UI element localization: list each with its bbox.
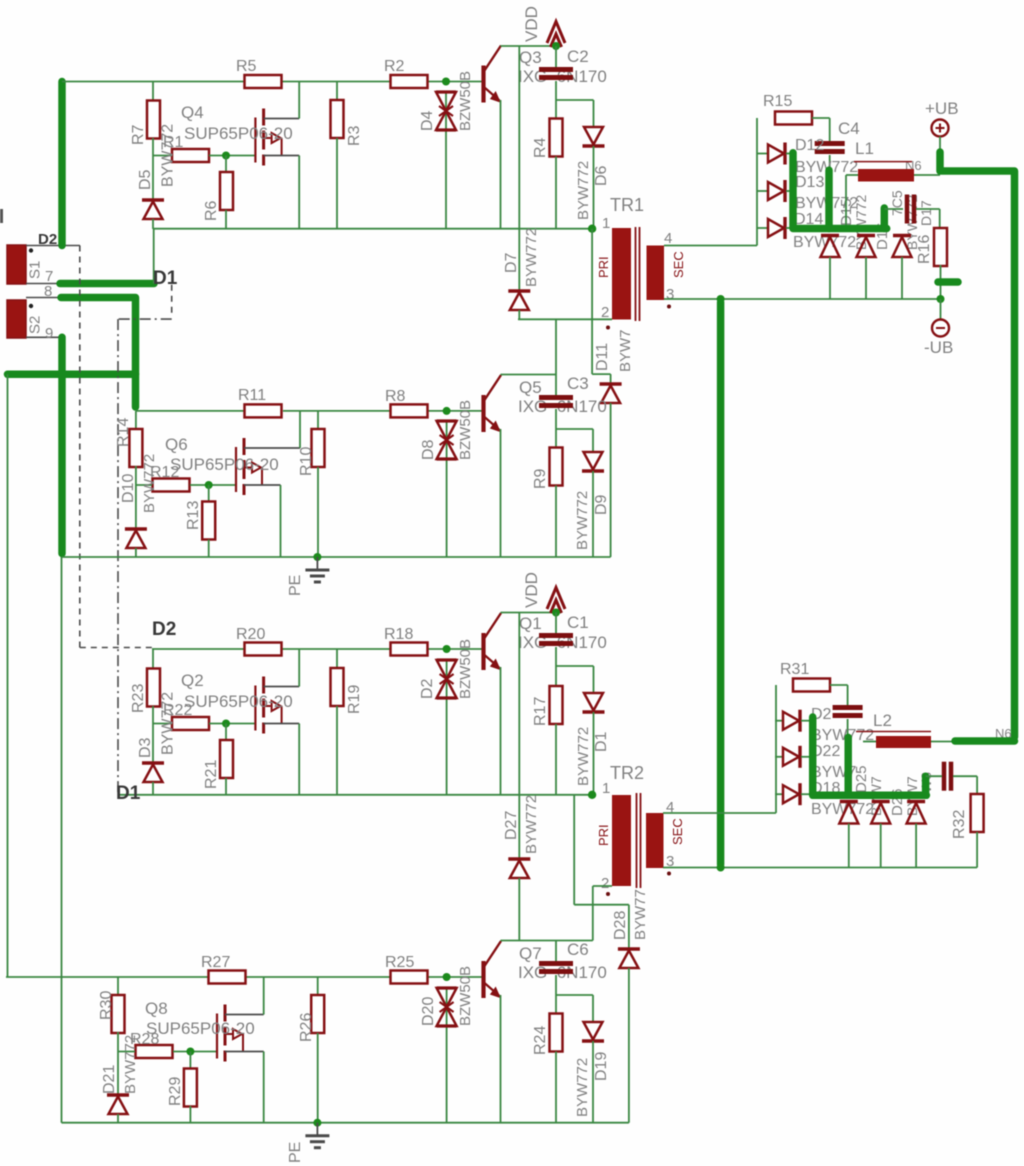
svg-text:Q5: Q5 bbox=[519, 378, 542, 397]
transistor Q5 IXGN170 bbox=[484, 375, 502, 432]
supply VDD block3 bbox=[547, 588, 565, 615]
junction D4 node bbox=[442, 78, 450, 86]
wire C7 bottom bbox=[847, 719, 849, 798]
svg-text:R30: R30 bbox=[98, 991, 115, 1020]
diode D16 up bbox=[857, 234, 875, 237]
svg-text:R25: R25 bbox=[385, 954, 414, 971]
svg-text:BYW772: BYW772 bbox=[523, 228, 540, 287]
wire D14 anode bbox=[757, 227, 768, 229]
wire D10 bottom bbox=[135, 548, 137, 557]
svg-text:D21: D21 bbox=[101, 1065, 118, 1094]
svg-text:D27: D27 bbox=[503, 811, 520, 840]
wire net D2 left vertical bbox=[7, 374, 9, 977]
svg-text:Q4: Q4 bbox=[181, 103, 204, 122]
current transformer S2 bbox=[7, 298, 61, 339]
wire R13 top bbox=[208, 485, 210, 501]
svg-text:BYW7: BYW7 bbox=[617, 329, 634, 372]
svg-text:R32: R32 bbox=[951, 810, 968, 839]
wire R16 bottom bbox=[940, 265, 942, 299]
wire +UB stem bbox=[939, 137, 941, 153]
wire R30 to D21 bbox=[117, 1032, 119, 1095]
terminal +UB bbox=[932, 120, 949, 137]
TVS diode D20 BZW50B bbox=[437, 988, 457, 1026]
wire R22 to junction bbox=[209, 723, 255, 725]
svg-text:PRI: PRI bbox=[596, 256, 611, 278]
capacitor C1 bbox=[539, 636, 573, 644]
svg-text:Q7: Q7 bbox=[519, 944, 542, 963]
junction PE block2 bbox=[313, 553, 321, 561]
wire C1 top bbox=[555, 613, 557, 634]
thick wire net 8 bbox=[61, 298, 136, 408]
resistor R13 bbox=[202, 502, 215, 540]
wire R1 left lead bbox=[153, 155, 172, 157]
wire D27 down o2 bbox=[915, 824, 917, 868]
wire R10 top bbox=[317, 411, 319, 429]
diode D15 up bbox=[821, 234, 839, 237]
junction PE block4 bbox=[313, 1119, 321, 1127]
svg-text:SUP65P06-20: SUP65P06-20 bbox=[146, 1019, 255, 1038]
wire C8 left bbox=[926, 775, 942, 777]
resistor R4 bbox=[550, 119, 563, 157]
svg-text:TR2: TR2 bbox=[610, 763, 644, 783]
svg-text:L2: L2 bbox=[873, 711, 892, 730]
thick stub R16 bbox=[938, 278, 958, 286]
wire rectifier left column bbox=[756, 118, 758, 246]
wire branch to D19 bbox=[556, 994, 593, 996]
node bottom rail block2 PE bbox=[62, 556, 611, 558]
svg-text:D9: D9 bbox=[593, 494, 610, 515]
svg-text:SEC: SEC bbox=[670, 818, 685, 845]
polarity dot TR2 pri bbox=[606, 892, 610, 896]
junction D8 node bbox=[443, 407, 451, 415]
wire C3 to R9 bbox=[555, 409, 557, 447]
svg-text:SUP65P06-20: SUP65P06-20 bbox=[184, 124, 293, 143]
svg-text:R20: R20 bbox=[236, 626, 265, 643]
svg-text:VDD: VDD bbox=[522, 6, 541, 42]
svg-text:BYW772: BYW772 bbox=[575, 727, 592, 786]
node bottom rail block1 bbox=[153, 228, 592, 230]
wire D9 bottom bbox=[592, 471, 594, 557]
wire R28 to gate bbox=[173, 1051, 217, 1053]
wire D1 bottom bbox=[593, 712, 595, 795]
diode D6 BYW772 bbox=[583, 127, 605, 146]
wire C1 to R17 bbox=[555, 647, 557, 686]
wire D25 down bbox=[848, 824, 850, 868]
resistor R23 bbox=[147, 669, 160, 707]
node top rail block4 bbox=[6, 976, 209, 978]
wire R19 bottom bbox=[336, 706, 338, 795]
diode D13 BYW772 bbox=[768, 180, 785, 202]
resistor R29 bbox=[184, 1069, 197, 1107]
wire pin1 to D28 vertical bbox=[573, 795, 575, 905]
wire R4 bottom bbox=[555, 157, 557, 229]
svg-text:BYW772: BYW772 bbox=[160, 124, 177, 187]
svg-text:C4: C4 bbox=[838, 119, 860, 138]
resistor R32 bbox=[971, 794, 984, 832]
diode D27 up o2 bbox=[907, 800, 925, 803]
svg-text:C6: C6 bbox=[567, 940, 589, 959]
svg-text:R8: R8 bbox=[385, 388, 406, 405]
svg-text:R7: R7 bbox=[130, 124, 147, 145]
wire R14 top bbox=[135, 411, 137, 430]
wire R22 left lead bbox=[153, 723, 172, 725]
resistor R22 bbox=[172, 717, 209, 730]
svg-text:SUP65P06-20: SUP65P06-20 bbox=[184, 692, 293, 711]
svg-text:+UB: +UB bbox=[925, 99, 959, 118]
wire D19 bottom bbox=[592, 1041, 594, 1123]
junction TR2 pin1 bbox=[588, 791, 596, 799]
wire C5 to R16 bbox=[939, 209, 941, 229]
svg-text:R6: R6 bbox=[203, 200, 220, 221]
svg-text:R13: R13 bbox=[185, 501, 202, 530]
svg-text:S2: S2 bbox=[27, 316, 44, 334]
wire D20 vertical bbox=[446, 988, 448, 1123]
svg-text:D12: D12 bbox=[795, 137, 824, 154]
diode D19 BYW772 bbox=[582, 1022, 604, 1041]
resistor R15 bbox=[775, 112, 812, 125]
svg-text:D1: D1 bbox=[593, 731, 610, 752]
svg-text:2: 2 bbox=[601, 875, 609, 892]
resistor R30 bbox=[112, 995, 125, 1033]
wire Q5 emitter bbox=[500, 429, 502, 557]
wire D5 to rail bbox=[152, 219, 154, 229]
wire C2 to R4 bbox=[555, 81, 557, 118]
wire D28 bottom bbox=[628, 968, 630, 1123]
wire L2 right lead bbox=[931, 741, 955, 743]
thick bus stub right o2 bbox=[922, 776, 930, 795]
wire R29 bottom bbox=[189, 1106, 191, 1123]
svg-text:BZW50B: BZW50B bbox=[457, 639, 474, 699]
junction minus TR1 bbox=[717, 295, 725, 303]
svg-text:TR1: TR1 bbox=[610, 195, 644, 215]
thick bus stub mid o2 bbox=[844, 737, 852, 795]
svg-text:C3: C3 bbox=[567, 374, 589, 393]
svg-text:D10: D10 bbox=[120, 474, 137, 503]
wire net9 vertical to PE rail bbox=[61, 557, 63, 1123]
thick wire +UB bbox=[940, 152, 1015, 737]
svg-text:R9: R9 bbox=[532, 468, 549, 489]
svg-text:BYW772: BYW772 bbox=[853, 195, 869, 250]
capacitor C5 bbox=[907, 195, 914, 224]
resistor R8 bbox=[391, 404, 428, 417]
svg-text:D2: D2 bbox=[152, 619, 176, 640]
resistor R21 bbox=[220, 740, 233, 778]
wire Q7 emitter bbox=[500, 995, 502, 1123]
transformer TR1 secondary bbox=[647, 246, 665, 301]
wire D7 to pin2 bbox=[518, 310, 520, 319]
svg-text:BYW77: BYW77 bbox=[632, 889, 649, 940]
wire D27 vertical bbox=[518, 613, 520, 859]
diode D26 up bbox=[872, 800, 890, 803]
node bottom rail block3 bbox=[118, 794, 592, 796]
wire L1 right lead bbox=[914, 174, 940, 176]
svg-text:BYW772: BYW772 bbox=[574, 1058, 591, 1117]
wire R14 to D10 bbox=[135, 466, 137, 529]
transformer TR2 core bbox=[636, 793, 638, 888]
wire C8 right bbox=[953, 775, 977, 777]
wire R6 top bbox=[225, 156, 227, 173]
supply VDD block1 bbox=[547, 22, 565, 49]
transformer TR1 core bbox=[635, 227, 637, 321]
wire D6 top bbox=[593, 100, 595, 127]
wire Q3 collector bbox=[501, 45, 557, 47]
resistor R7 bbox=[147, 101, 160, 139]
node TR2 pin2 wire bbox=[593, 885, 612, 887]
wire D22 anode bbox=[775, 720, 783, 722]
svg-text:D19: D19 bbox=[593, 1052, 610, 1081]
capacitor C4 bbox=[815, 144, 845, 152]
wire R19 top bbox=[336, 649, 338, 668]
wire R12 left bbox=[136, 484, 152, 486]
wire D11 jog bbox=[592, 373, 611, 375]
wire D17 down bbox=[901, 257, 903, 299]
transistor Q2 SUP65P06-20 bbox=[255, 649, 299, 795]
transistor Q3 IXGN170 bbox=[484, 46, 502, 103]
svg-text:D4: D4 bbox=[419, 110, 436, 131]
wire branch to D1 bbox=[556, 665, 594, 667]
svg-text:8: 8 bbox=[44, 283, 52, 300]
transistor Q4 SUP65P06-20 bbox=[255, 82, 299, 229]
svg-text:R15: R15 bbox=[763, 93, 792, 110]
ground PE block4 bbox=[305, 1123, 329, 1148]
diode D17 up bbox=[893, 234, 911, 237]
svg-text:D20: D20 bbox=[420, 997, 437, 1026]
resistor R19 bbox=[331, 668, 344, 706]
diode D1 BYW772 bbox=[583, 693, 605, 712]
node top rail block3 bbox=[152, 648, 245, 650]
thick bus stub right bbox=[881, 208, 889, 229]
wire C3 top bbox=[555, 319, 557, 395]
svg-text:Q3: Q3 bbox=[519, 48, 542, 67]
wire L1 left down bbox=[845, 175, 847, 225]
resistor R3 bbox=[331, 100, 344, 138]
diode D23 BYW772 bbox=[783, 746, 800, 768]
junction VDD C1 bbox=[552, 609, 560, 617]
wire D2tvs vertical bbox=[446, 660, 448, 795]
wire D23 cathode bbox=[801, 756, 813, 758]
svg-text:D2: D2 bbox=[38, 231, 57, 248]
svg-text:BZW50B: BZW50B bbox=[457, 400, 474, 460]
wire C5 right bbox=[916, 208, 940, 210]
wire D3 to rail bbox=[152, 782, 154, 795]
wire D12 anode bbox=[757, 153, 768, 155]
svg-text:R29: R29 bbox=[167, 1077, 184, 1106]
wire D11 bottom bbox=[610, 403, 612, 557]
inductor L2 bbox=[876, 736, 931, 748]
wire R23 branch top bbox=[152, 649, 154, 669]
wire D24 anode bbox=[775, 793, 783, 795]
wire R6 bottom bbox=[225, 210, 227, 229]
edge tick bbox=[0, 209, 3, 223]
diode D24 BYW772 bbox=[783, 783, 800, 805]
svg-text:R19: R19 bbox=[346, 685, 363, 714]
resistor R2 bbox=[391, 75, 428, 88]
resistor R11 bbox=[245, 404, 282, 417]
svg-text:SEC: SEC bbox=[671, 251, 686, 278]
svg-text:3: 3 bbox=[666, 286, 674, 303]
wire R26 bottom bbox=[317, 1033, 319, 1123]
resistor R26 bbox=[311, 995, 324, 1033]
wire R26 top bbox=[317, 977, 319, 995]
transistor Q8 SUP65P06-20 bbox=[217, 977, 264, 1123]
svg-text:Q6: Q6 bbox=[165, 435, 188, 454]
wire D24 cathode bbox=[801, 793, 813, 795]
wire R1 to junction bbox=[209, 155, 255, 157]
resistor R12 bbox=[153, 479, 190, 492]
resistor R31 bbox=[793, 679, 830, 692]
svg-text:BYW772: BYW772 bbox=[160, 692, 177, 755]
transformer TR2 secondary bbox=[646, 813, 664, 868]
wire C8 to R32 bbox=[976, 776, 978, 794]
TVS diode D8 BZW50B bbox=[437, 421, 457, 459]
transistor Q6 SUP65P06-20 bbox=[236, 411, 300, 557]
wire pin1 to D11 vertical bbox=[591, 229, 593, 374]
svg-text:PE: PE bbox=[287, 1142, 304, 1163]
svg-text:D17: D17 bbox=[918, 200, 934, 226]
wire D28 jog bbox=[574, 904, 629, 906]
wire R15 right to C4 bbox=[812, 117, 830, 119]
wire R3 top bbox=[336, 82, 338, 101]
resistor R9 bbox=[550, 448, 563, 486]
junction TR1 pin1 bbox=[588, 225, 596, 233]
svg-text:D13: D13 bbox=[795, 174, 824, 191]
wire C5 left bbox=[885, 208, 904, 210]
resistor R20 bbox=[245, 643, 282, 656]
resistor R28 bbox=[136, 1045, 173, 1058]
wire TR1 pin4 to rectifier bbox=[664, 245, 757, 247]
svg-text:D8: D8 bbox=[420, 439, 437, 460]
wire R3 bottom bbox=[336, 138, 338, 229]
resistor R16 bbox=[934, 228, 947, 266]
wire R23 to R22 bbox=[152, 706, 154, 763]
diode D14 BYW772 bbox=[768, 217, 785, 239]
svg-text:BYW772: BYW772 bbox=[574, 491, 591, 550]
wire D26 down bbox=[880, 824, 882, 868]
wire R9 bottom bbox=[555, 486, 557, 558]
wire R31 right to C7 bbox=[830, 684, 848, 686]
junction gate Q8 bbox=[186, 1048, 194, 1056]
wire R32 bottom bbox=[976, 832, 978, 868]
svg-text:PE: PE bbox=[287, 575, 304, 596]
svg-text:4: 4 bbox=[664, 230, 672, 247]
thick bus link outputs bbox=[717, 302, 725, 865]
wire TR2 pin4 to rectifier bbox=[663, 812, 776, 814]
dashed link to D2 rail bbox=[80, 647, 152, 649]
resistor R24 bbox=[550, 1014, 563, 1052]
ground PE block2 bbox=[305, 557, 329, 582]
wire R29 top bbox=[189, 1052, 191, 1070]
svg-text:R14: R14 bbox=[115, 418, 132, 447]
wire D9 top bbox=[592, 429, 594, 452]
svg-text:L1: L1 bbox=[855, 139, 874, 158]
thick wire net 9 bbox=[58, 337, 66, 553]
diode D3 BYW772 bbox=[142, 763, 164, 782]
wire D4 vertical bbox=[445, 92, 447, 229]
wire D8 vertical bbox=[446, 421, 448, 557]
wire R7 to R1 bbox=[152, 138, 154, 200]
wire -UB stem bbox=[940, 299, 942, 320]
node top rail block1 bbox=[62, 81, 245, 83]
wire R30 top bbox=[117, 977, 119, 996]
wire D19 top bbox=[592, 995, 594, 1022]
capacitor C3 bbox=[539, 398, 573, 406]
wire pin2 to Q7 collector bbox=[592, 886, 594, 941]
node bottom rail block4 PE bbox=[62, 1122, 629, 1124]
svg-text:D28: D28 bbox=[612, 911, 629, 940]
dash-dot link D1 long vertical bbox=[117, 319, 119, 795]
wire R21 bottom bbox=[225, 778, 227, 795]
resistor R17 bbox=[550, 686, 563, 724]
wire C2 top bbox=[555, 46, 557, 67]
node top rail block2 bbox=[136, 410, 244, 412]
thick wire net 7 horizontal bbox=[60, 280, 154, 288]
diode D27 BYW772 bbox=[508, 859, 530, 878]
thick wire net 8 branch bbox=[8, 371, 136, 379]
transformer TR2 primary bbox=[612, 795, 631, 886]
diode D10 BYW772 bbox=[125, 529, 147, 548]
svg-text:R31: R31 bbox=[780, 661, 809, 678]
svg-text:7C5: 7C5 bbox=[889, 190, 905, 216]
svg-text:D5: D5 bbox=[137, 169, 154, 190]
svg-text:1: 1 bbox=[602, 215, 610, 232]
wire Q1 collector bbox=[501, 612, 557, 614]
polarity dot TR1 pri bbox=[606, 326, 610, 330]
resistor R27 bbox=[209, 971, 246, 984]
wire D6 bottom bbox=[593, 146, 595, 229]
wire R10 bottom bbox=[317, 467, 319, 557]
svg-text:PRI: PRI bbox=[596, 824, 611, 846]
svg-text:D6: D6 bbox=[593, 165, 610, 186]
wire branch to D9 bbox=[556, 428, 593, 430]
svg-text:R11: R11 bbox=[238, 387, 266, 404]
svg-text:BZW50B: BZW50B bbox=[457, 71, 474, 131]
svg-text:VDD: VDD bbox=[522, 572, 541, 608]
capacitor C8 bbox=[944, 762, 951, 791]
resistor R14 bbox=[129, 429, 142, 467]
svg-text:BYW772: BYW772 bbox=[141, 454, 158, 513]
wire R24 bottom bbox=[555, 1052, 557, 1123]
wire D14 cathode bbox=[786, 227, 793, 229]
thick bus plus U bbox=[793, 153, 887, 229]
svg-text:D3: D3 bbox=[137, 737, 154, 758]
wire D11 top bbox=[610, 374, 612, 384]
wire C4 bottom bbox=[829, 155, 831, 232]
resistor R18 bbox=[391, 643, 428, 656]
thick wire net 7 vertical bbox=[58, 82, 66, 246]
junction minus TR2 bbox=[717, 864, 725, 872]
transformer TR1 primary bbox=[612, 228, 631, 320]
wire D1 to rail1 bbox=[153, 229, 155, 284]
diode D21 BYW772 bbox=[107, 1095, 129, 1114]
wire Q1 emitter bbox=[500, 667, 502, 795]
wire R7 branch top bbox=[152, 82, 154, 102]
junction gate Q2 bbox=[222, 720, 230, 728]
junction D2 node bbox=[443, 645, 451, 653]
wire D12 cathode bbox=[786, 153, 793, 155]
diode D5 BYW772 bbox=[142, 200, 164, 219]
wire L1 left lead bbox=[846, 174, 858, 176]
wire L2 left lead bbox=[863, 741, 876, 743]
wire branch to D6 bbox=[556, 99, 594, 101]
svg-text:R21: R21 bbox=[203, 760, 220, 789]
svg-text:D1: D1 bbox=[116, 783, 141, 804]
wire R21 top bbox=[225, 724, 227, 741]
dashed link D1 vertical bbox=[171, 285, 173, 317]
svg-text:R5: R5 bbox=[236, 58, 257, 75]
terminal -UB bbox=[932, 320, 949, 337]
diode D12 BYW772 bbox=[768, 143, 785, 165]
diode D7 BYW772 bbox=[508, 291, 530, 310]
